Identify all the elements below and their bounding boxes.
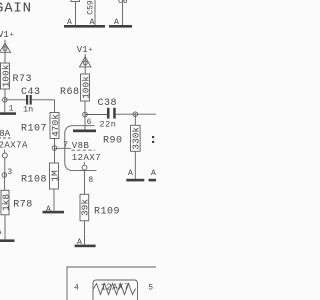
svg-text:C59: C59: [87, 0, 96, 15]
svg-text:R68: R68: [60, 87, 80, 98]
svg-text:A: A: [151, 169, 156, 178]
svg-text:7: 7: [63, 141, 68, 150]
svg-text:R90: R90: [103, 135, 123, 146]
svg-text:39k: 39k: [80, 199, 91, 216]
svg-text:8: 8: [88, 176, 93, 185]
svg-text:A: A: [0, 228, 2, 237]
svg-text:A: A: [67, 18, 72, 27]
svg-text:R109: R109: [94, 206, 120, 217]
svg-text:22n: 22n: [100, 119, 117, 129]
svg-text:V1: V1: [77, 45, 88, 55]
svg-text:V1: V1: [0, 30, 9, 40]
svg-text:100k: 100k: [0, 64, 11, 87]
svg-text:1: 1: [9, 104, 14, 113]
svg-text:C6: C6: [118, 0, 128, 6]
svg-text:330k: 330k: [131, 127, 142, 150]
svg-text:A: A: [77, 238, 82, 247]
svg-text:470k: 470k: [50, 114, 61, 137]
svg-text:12AX7A: 12AX7A: [0, 141, 28, 151]
svg-text:GAIN: GAIN: [0, 1, 32, 17]
svg-text:1k8: 1k8: [0, 194, 11, 211]
svg-text:C43: C43: [21, 87, 41, 98]
svg-text:A: A: [46, 205, 51, 214]
svg-text:R73: R73: [13, 74, 33, 85]
svg-text:3: 3: [7, 168, 12, 177]
svg-text:12AX7: 12AX7: [72, 153, 101, 163]
svg-text:R78: R78: [13, 200, 33, 211]
svg-text:1M: 1M: [49, 170, 60, 182]
svg-text:100k: 100k: [80, 76, 91, 99]
svg-text:12AX7: 12AX7: [101, 282, 130, 292]
svg-text:V8A: V8A: [0, 129, 11, 139]
svg-text:+: +: [88, 46, 92, 54]
svg-text:A: A: [128, 169, 133, 178]
svg-text:A: A: [90, 18, 95, 27]
svg-text:R107: R107: [21, 124, 47, 135]
svg-text:R108: R108: [21, 175, 47, 186]
svg-text:1n: 1n: [23, 104, 33, 114]
svg-text:+: +: [10, 31, 14, 39]
svg-text:A: A: [114, 18, 119, 27]
svg-text:5: 5: [148, 284, 153, 293]
svg-text:V8B: V8B: [72, 141, 90, 151]
svg-text:C38: C38: [98, 98, 118, 109]
svg-text:4: 4: [74, 284, 79, 293]
svg-text:6: 6: [87, 118, 92, 127]
